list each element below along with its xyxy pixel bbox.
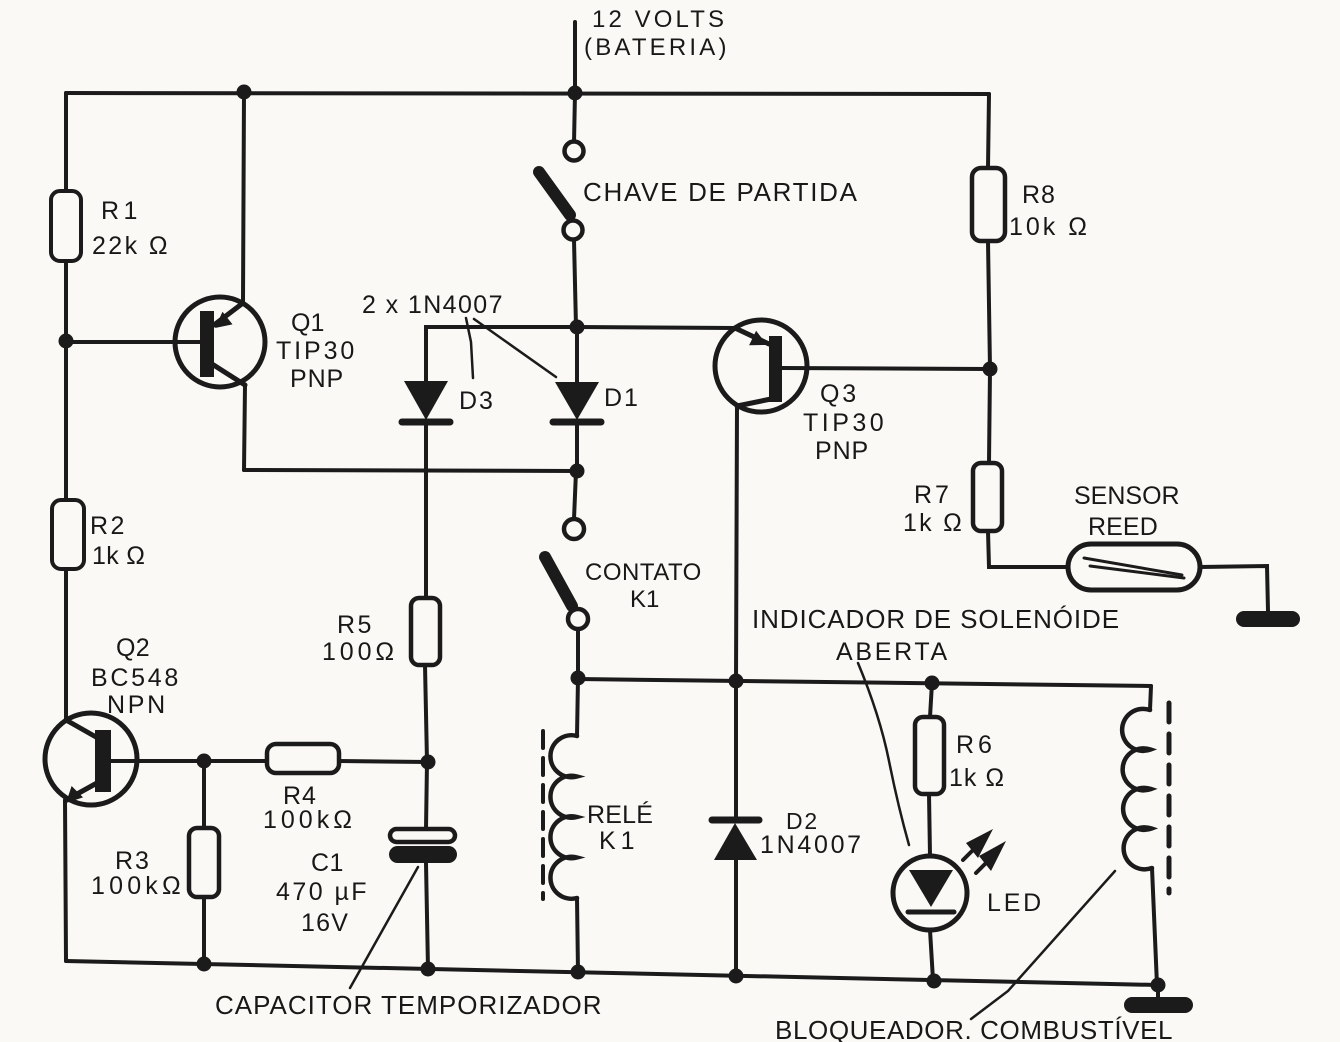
svg-text:10k Ω: 10k Ω [1009,213,1090,241]
wire R6 to LED [929,794,930,856]
wire D2 top [734,681,738,820]
svg-text:BC548: BC548 [91,664,181,692]
resistor R1 [51,191,81,261]
svg-text:BLOQUEADOR. COMBUSTÍVEL: BLOQUEADOR. COMBUSTÍVEL [775,1015,1173,1042]
node D2 top junction [729,674,744,689]
label D2 1N4007 [760,808,864,859]
wire top bus to chave terminal [574,93,575,143]
wire switch to D node [574,240,576,327]
label R3 100kΩ [91,847,185,900]
svg-text:1k Ω: 1k Ω [949,764,1005,792]
svg-text:(BATERIA): (BATERIA) [584,34,730,61]
svg-text:TIP30: TIP30 [276,337,357,365]
LED indicator [893,856,967,980]
label RELÉ K1 [587,800,653,855]
svg-text:PNP: PNP [290,365,344,393]
resistor R8 [972,168,1005,241]
node D1 top junction [570,320,585,335]
svg-text:REED: REED [1088,513,1158,541]
wire Q1 collector cross wire [244,470,577,471]
resistor R6 [915,717,944,794]
transistor Q3 TIP30 [715,320,988,412]
label Q1 TIP30 PNP [276,309,357,393]
label INDICADOR DE SOLENOIDE ABERTA [752,604,1120,666]
svg-text:R6: R6 [956,731,996,759]
diode D2 [712,820,759,976]
label R7 1kΩ [903,481,964,537]
resistor R3 [189,828,219,897]
svg-text:CAPACITOR TEMPORIZADOR: CAPACITOR TEMPORIZADOR [215,990,603,1020]
label R8 10kΩ [1009,181,1090,241]
switch S1 chave de partida [539,142,584,240]
svg-text:SENSOR: SENSOR [1074,482,1180,510]
label CONTATO K1 [585,559,702,613]
wire middle bus [578,679,1151,686]
node Q3 base node [983,362,998,377]
svg-text:R5: R5 [337,611,374,639]
svg-text:12 VOLTS: 12 VOLTS [592,6,727,33]
diode D1 [553,327,601,471]
svg-text:R8: R8 [1022,181,1056,209]
wire leader to D1 [474,319,556,377]
wire R3 top [202,761,206,828]
relay K1 coil [543,678,578,972]
label Q2 BC548 NPN [91,634,181,719]
svg-text:2 x 1N4007: 2 x 1N4007 [362,291,504,319]
svg-text:R1: R1 [101,197,142,225]
wire leader capacitor [350,867,418,988]
switch contato K1 [545,471,588,678]
wire Q3 collector drop [736,406,737,680]
svg-text:Q2: Q2 [116,634,150,662]
svg-text:470 µF: 470 µF [276,878,369,906]
ground bottom right [1156,985,1160,999]
svg-text:C1: C1 [311,849,344,877]
wire D node to Q3 emitter [577,327,735,328]
label R5 100Ω [322,611,398,666]
wire bottom ground bus [66,961,1158,985]
wire battery stub [573,22,577,93]
svg-text:RELÉ: RELÉ [587,800,653,829]
svg-text:CONTATO: CONTATO [585,559,702,586]
svg-text:Q1: Q1 [291,309,324,337]
resistor R5 [411,598,440,762]
node R3 top junction [197,754,212,769]
svg-text:K1: K1 [630,586,659,613]
sensor reed capsule [1068,544,1200,590]
svg-text:INDICADOR DE SOLENÓIDE: INDICADOR DE SOLENÓIDE [752,604,1120,634]
wire reed to ground [1200,566,1268,611]
node Q1 base node [59,334,74,349]
svg-text:22k Ω: 22k Ω [92,232,170,260]
svg-text:NPN: NPN [107,691,168,719]
svg-text:ABERTA: ABERTA [836,638,950,666]
label SENSOR REED [1074,482,1180,541]
wire R2 to Q2 collector [64,569,68,720]
wire R3 bottom [202,897,206,964]
node junction top bus / Q1 riser [237,85,252,100]
node D2 bottom [729,969,744,984]
wire Q1 emitter riser [243,92,244,301]
svg-text:16V: 16V [301,909,349,937]
node relay top junction [571,671,586,686]
label C1 470uF 16V [276,849,369,937]
svg-text:R2: R2 [90,512,127,540]
solenoid coil bloqueador [1122,686,1169,985]
label R1 22kΩ [92,197,170,260]
svg-text:D3: D3 [459,387,495,415]
resistor R2 [52,500,84,569]
wire Q1 collector drop [244,385,245,470]
wire R7 to reed [988,531,1068,567]
wire base node to R2 [64,341,68,500]
resistor R7 [973,463,1002,531]
svg-text:CHAVE DE PARTIDA: CHAVE DE PARTIDA [583,177,859,207]
label R4 100kΩ [263,782,356,834]
node R3 bottom [197,957,212,972]
transistor Q2 BC548 [45,713,204,805]
node R6 top junction [925,676,940,691]
svg-text:D1: D1 [604,384,640,412]
node C1 top junction [421,755,436,770]
resistor R4 [204,744,428,773]
capacitor C1 [389,762,457,969]
wire D node to D3 branch [426,327,577,381]
node relay bottom [571,965,586,980]
transistor Q1 TIP30 [66,297,265,387]
label 12 VOLTS (BATERIA) [584,6,730,61]
wire leader to D3 [466,318,473,378]
node contato top junction [570,464,585,479]
label Q3 TIP30 PNP [803,380,887,465]
svg-text:1k Ω: 1k Ω [92,542,145,570]
svg-text:Q3: Q3 [820,380,859,408]
svg-text:LED: LED [987,889,1044,917]
svg-text:R7: R7 [914,481,952,509]
node junction top bus / battery [568,86,583,101]
wire R1 to base node [64,261,68,341]
wire leader ABERTA to LED [858,663,909,845]
svg-text:PNP: PNP [815,437,869,465]
wire node to R7 [989,369,990,463]
wire top supply bus [66,93,989,94]
ground reed [1236,611,1300,627]
node C1 bottom [421,962,436,977]
wire leader bloqueador [971,871,1115,1019]
svg-text:1k Ω: 1k Ω [903,509,964,537]
svg-text:100kΩ: 100kΩ [91,872,185,900]
label R6 1kΩ [949,731,1005,792]
label R2 1kΩ [90,512,145,570]
wire top bus to R8 [988,94,989,168]
wire left rail top [64,93,68,191]
wire R8 to node [988,241,990,369]
wire Q2 emitter to ground bus [65,800,66,961]
diode D3 [402,381,450,598]
svg-text:K1: K1 [599,827,640,855]
svg-text:1N4007: 1N4007 [760,831,864,859]
LED emission arrows [966,829,1006,871]
svg-text:TIP30: TIP30 [803,409,887,437]
wire R6 top [930,683,932,717]
svg-text:R3: R3 [115,847,151,875]
svg-text:100kΩ: 100kΩ [263,806,356,834]
node bus right end [1151,978,1166,993]
svg-text:100Ω: 100Ω [322,638,398,666]
node LED bottom [927,974,942,989]
